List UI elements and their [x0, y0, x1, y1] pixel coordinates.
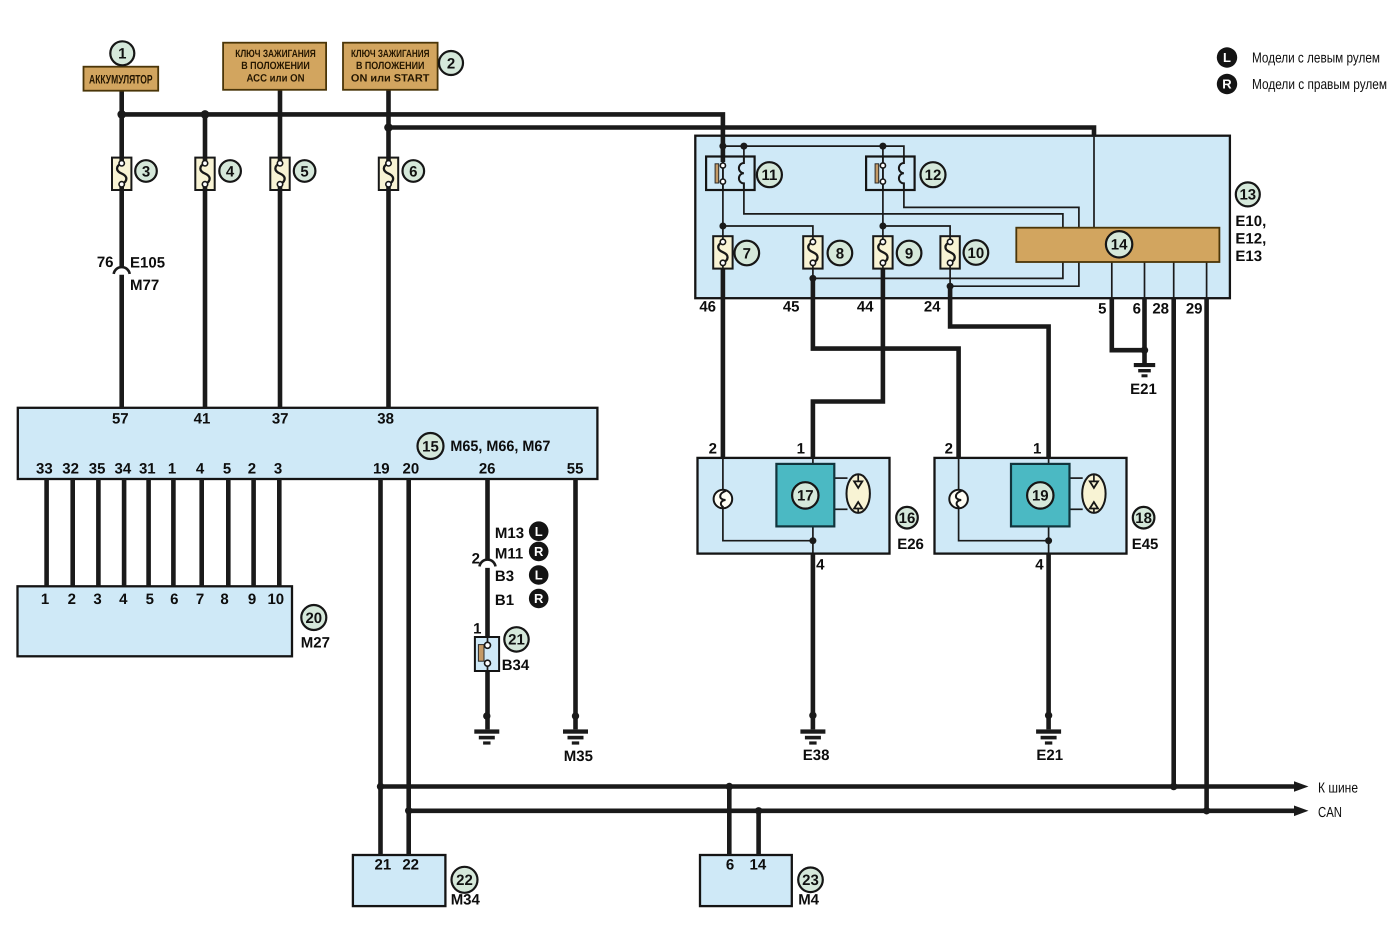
svg-text:14: 14 [1111, 237, 1128, 254]
svg-text:1: 1 [1033, 440, 1041, 457]
svg-text:L: L [535, 568, 543, 583]
svg-text:20: 20 [403, 461, 420, 478]
svg-text:14: 14 [750, 856, 767, 873]
svg-text:12: 12 [925, 167, 942, 184]
svg-text:10: 10 [267, 591, 284, 608]
svg-text:M35: M35 [564, 748, 593, 765]
svg-text:2: 2 [945, 440, 953, 457]
svg-text:В ПОЛОЖЕНИИ: В ПОЛОЖЕНИИ [356, 60, 425, 72]
svg-text:17: 17 [797, 488, 814, 505]
svg-text:4: 4 [226, 163, 235, 180]
svg-text:АСС или ON: АСС или ON [247, 72, 305, 84]
svg-text:2: 2 [472, 551, 480, 568]
svg-text:E45: E45 [1132, 536, 1159, 553]
svg-text:8: 8 [220, 591, 228, 608]
svg-text:E105: E105 [130, 255, 165, 272]
svg-text:55: 55 [567, 461, 584, 478]
svg-text:1: 1 [118, 46, 126, 63]
svg-text:22: 22 [456, 872, 473, 889]
svg-text:28: 28 [1152, 301, 1169, 318]
svg-text:R: R [534, 544, 544, 559]
svg-text:B34: B34 [502, 657, 530, 674]
svg-text:1: 1 [41, 591, 49, 608]
svg-text:29: 29 [1186, 301, 1203, 318]
svg-text:6: 6 [1133, 301, 1141, 318]
svg-text:M11: M11 [495, 546, 523, 563]
svg-text:5: 5 [146, 591, 154, 608]
svg-text:6: 6 [726, 856, 734, 873]
svg-text:4: 4 [196, 461, 205, 478]
svg-text:M13: M13 [495, 525, 524, 542]
svg-text:2: 2 [709, 440, 717, 457]
svg-text:2: 2 [68, 591, 76, 608]
svg-text:1: 1 [473, 621, 481, 638]
svg-text:M65, M66, M67: M65, M66, M67 [450, 438, 550, 455]
svg-text:3: 3 [142, 163, 150, 180]
svg-text:7: 7 [743, 245, 751, 262]
svg-text:E12,: E12, [1235, 231, 1266, 248]
svg-text:7: 7 [196, 591, 204, 608]
svg-text:3: 3 [274, 461, 282, 478]
svg-text:2: 2 [447, 55, 455, 72]
svg-text:21: 21 [375, 856, 392, 873]
svg-text:В ПОЛОЖЕНИИ: В ПОЛОЖЕНИИ [241, 60, 310, 72]
svg-text:26: 26 [479, 461, 496, 478]
svg-text:32: 32 [62, 461, 79, 478]
svg-text:ON или START: ON или START [351, 72, 430, 84]
svg-text:E21: E21 [1036, 747, 1063, 764]
svg-text:20: 20 [305, 610, 322, 627]
svg-text:24: 24 [924, 299, 941, 316]
svg-text:6: 6 [409, 163, 417, 180]
svg-text:3: 3 [93, 591, 101, 608]
svg-text:19: 19 [373, 461, 390, 478]
svg-text:57: 57 [112, 411, 129, 428]
svg-text:38: 38 [377, 411, 394, 428]
svg-text:КЛЮЧ ЗАЖИГАНИЯ: КЛЮЧ ЗАЖИГАНИЯ [235, 48, 316, 60]
svg-text:L: L [535, 524, 543, 539]
svg-text:E10,: E10, [1235, 213, 1266, 230]
svg-text:46: 46 [699, 299, 716, 316]
svg-text:5: 5 [1098, 301, 1106, 318]
svg-text:8: 8 [836, 245, 844, 262]
svg-text:9: 9 [905, 245, 913, 262]
svg-text:76: 76 [97, 254, 114, 271]
svg-text:B3: B3 [495, 568, 514, 585]
svg-text:4: 4 [816, 557, 825, 574]
svg-text:16: 16 [899, 510, 916, 527]
svg-text:37: 37 [272, 411, 289, 428]
svg-text:B1: B1 [495, 592, 514, 609]
svg-text:23: 23 [802, 872, 819, 889]
svg-text:44: 44 [857, 299, 874, 316]
svg-text:10: 10 [968, 245, 985, 262]
svg-text:1: 1 [797, 440, 805, 457]
svg-text:Модели с левым рулем: Модели с левым рулем [1252, 50, 1380, 66]
svg-text:35: 35 [89, 461, 106, 478]
svg-text:18: 18 [1135, 510, 1152, 527]
svg-text:4: 4 [1035, 557, 1044, 574]
svg-text:1: 1 [168, 461, 176, 478]
svg-text:4: 4 [119, 591, 128, 608]
svg-text:Модели с правым рулем: Модели с правым рулем [1252, 77, 1387, 93]
svg-text:M4: M4 [798, 891, 819, 908]
svg-text:К шине: К шине [1318, 781, 1358, 797]
svg-text:E38: E38 [803, 747, 830, 764]
svg-text:2: 2 [248, 461, 256, 478]
svg-text:6: 6 [170, 591, 178, 608]
svg-text:22: 22 [402, 856, 419, 873]
svg-text:9: 9 [248, 591, 256, 608]
svg-text:45: 45 [783, 299, 800, 316]
svg-text:R: R [534, 591, 544, 606]
svg-text:АККУМУЛЯТОР: АККУМУЛЯТОР [89, 73, 153, 87]
svg-text:E13: E13 [1235, 248, 1262, 265]
svg-text:E21: E21 [1130, 381, 1157, 398]
svg-text:L: L [1223, 50, 1231, 65]
svg-text:5: 5 [223, 461, 231, 478]
svg-text:41: 41 [194, 411, 211, 428]
svg-text:5: 5 [300, 163, 308, 180]
svg-text:15: 15 [422, 438, 439, 455]
svg-text:M27: M27 [301, 635, 330, 652]
svg-text:33: 33 [36, 461, 53, 478]
svg-text:R: R [1222, 77, 1232, 92]
svg-text:31: 31 [139, 461, 156, 478]
svg-text:M34: M34 [451, 891, 481, 908]
svg-text:21: 21 [508, 632, 525, 649]
svg-text:КЛЮЧ ЗАЖИГАНИЯ: КЛЮЧ ЗАЖИГАНИЯ [351, 48, 430, 60]
svg-text:13: 13 [1239, 187, 1256, 204]
svg-text:M77: M77 [130, 277, 159, 294]
svg-text:11: 11 [761, 167, 777, 184]
svg-text:19: 19 [1032, 488, 1049, 505]
svg-text:CAN: CAN [1318, 805, 1342, 821]
svg-text:E26: E26 [897, 536, 924, 553]
svg-text:34: 34 [115, 461, 132, 478]
